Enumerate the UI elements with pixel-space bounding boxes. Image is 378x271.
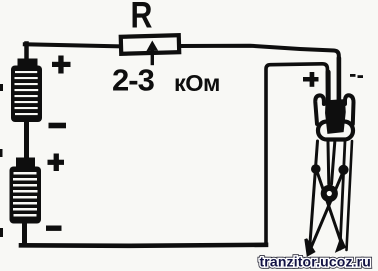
leg tip right <box>337 239 345 251</box>
svg-text:2-3: 2-3 <box>112 63 155 98</box>
clothespin left leg <box>310 141 318 250</box>
wire top rail right segment (resistor to clip, with corner drop) <box>181 46 339 103</box>
wire top rail left segment (battery + to resistor) <box>25 44 119 46</box>
battery cell G1 (top) <box>11 59 42 160</box>
wire bottom rail (battery - to inner loop riser) <box>21 245 266 246</box>
spring wire upper hooks <box>327 142 331 184</box>
spring hook dot right <box>338 165 348 175</box>
clothespin right leg <box>340 141 345 249</box>
spring wire cross arms <box>317 170 343 245</box>
spring collar band <box>318 122 353 140</box>
node + of cell G2 <box>48 154 65 172</box>
wire lead into sensor (right) <box>337 58 342 102</box>
clothespin probe assembly <box>306 58 354 255</box>
wire inner loop: left vertical riser, top run, right drop to clip <box>266 64 328 244</box>
node - of cell G2 <box>46 226 62 231</box>
right jaw <box>345 95 354 124</box>
svg-text:кОм: кОм <box>174 70 220 96</box>
spring hook dot left <box>311 164 321 174</box>
spring coil <box>324 188 335 199</box>
node + of probe electrode <box>303 72 319 87</box>
battery G2 lower stem <box>22 222 27 245</box>
node - of probe electrode (sketch dashes) <box>350 74 363 78</box>
left jaw <box>315 95 324 124</box>
watermark tranzitor.ucoz.ru <box>260 254 371 270</box>
node + of cell G1 <box>52 56 71 74</box>
scan specks at left edge <box>0 84 3 237</box>
leg tip left <box>306 239 314 255</box>
wire top-left vertical stub from battery to top rail <box>24 44 29 60</box>
svg-text:R: R <box>131 0 153 36</box>
resistor R1 box <box>121 35 179 54</box>
wire lead into sensor (left) <box>326 72 331 101</box>
resistor R1 wiper arrow <box>151 47 154 64</box>
node - of cell G1 <box>49 123 67 129</box>
clamped sensor blob between jaws <box>326 101 344 133</box>
battery cell G2 (bottom) <box>10 158 42 246</box>
battery G1 lower stem <box>24 121 29 159</box>
svg-text:tranzitor.ucoz.ru: tranzitor.ucoz.ru <box>260 254 371 270</box>
